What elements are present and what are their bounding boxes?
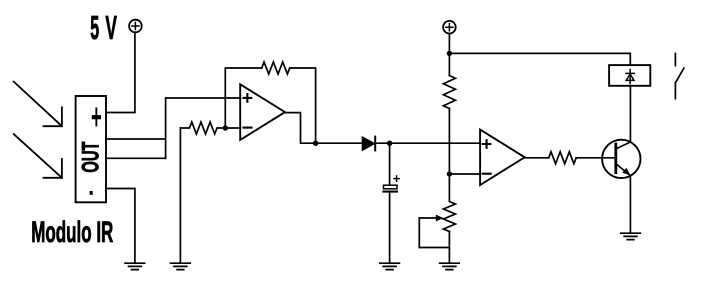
capacitor C1 [384,143,400,263]
power terminal right [443,21,456,34]
wire feedback right to output [290,68,316,143]
wire R1 to ground [179,128,181,263]
relay K1 box [609,65,650,86]
wire R5 to base [576,157,615,159]
module + pin label [92,108,101,127]
wire riser to op1 + input [166,98,241,158]
resistor R3 divider top [443,76,455,109]
wire power to relay [449,53,630,65]
ground R1 [171,263,191,269]
resistor R5 base [549,152,577,164]
diode D1 [362,137,374,150]
power terminal +5V left [129,20,142,33]
ground module [125,263,145,269]
wire module OUT to riser [106,157,166,159]
wire power terminal down [448,34,450,76]
IR light arrow 2 [14,134,62,178]
wire feedback left [225,68,261,128]
junction power relay branch [447,51,452,56]
junction op1 inverting input [223,125,228,130]
relay contact switch [675,54,684,99]
resistor R1 op1 inverting input [180,122,240,134]
wire divider to op2 inverting input [449,173,480,175]
op-amp U1 [240,84,285,140]
label 5 V [90,10,117,47]
wire op2 output [525,157,549,159]
ground capacitor [380,263,400,269]
relay diode [626,70,634,84]
module - pin label dot [90,191,93,195]
wire module OUT upper stub [106,138,166,140]
svg-text:5: 5 [90,10,99,47]
IR light arrow 1 [14,82,62,127]
wire op1 output [285,113,362,144]
junction feedback output [313,141,318,146]
junction diode capacitor [387,141,392,146]
potentiometer R4 [419,202,455,264]
op-amp U2 [480,130,525,185]
wire diode to op2 + input [375,142,480,144]
IR module box [76,96,106,202]
wire divider vertical [448,109,450,202]
ground emitter [621,233,641,239]
svg-text:OUT: OUT [77,141,104,172]
svg-text:V: V [105,10,117,47]
resistor R2 feedback [262,62,290,74]
wire collector to relay [629,86,631,142]
wire 5V terminal to module + pin [106,32,135,112]
svg-text:Modulo IR: Modulo IR [31,216,113,249]
wire module - pin to ground [106,189,135,264]
wire emitter to ground [629,176,631,234]
ground potentiometer [440,263,460,269]
transistor Q1 [602,140,640,178]
junction divider op2 inverting [447,171,452,176]
